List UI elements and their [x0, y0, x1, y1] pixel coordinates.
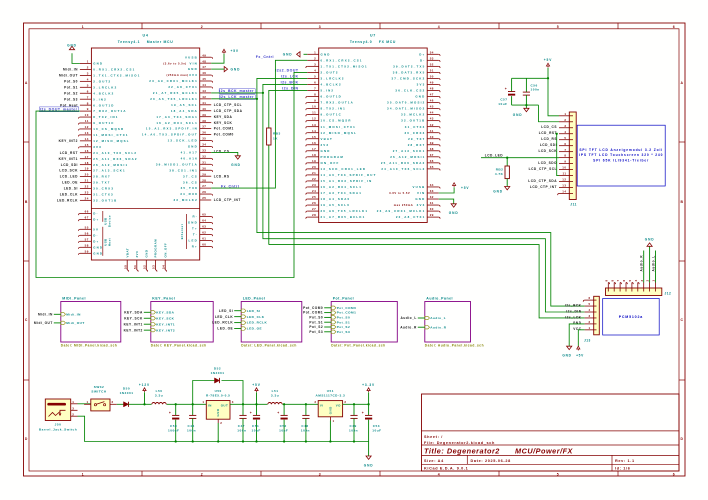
svg-text:3: 3: [319, 472, 321, 476]
svg-text:34: 34: [202, 143, 206, 147]
svg-text:46: 46: [202, 71, 206, 75]
capacitor C51: [256, 404, 258, 415]
svg-text:Midi_IN: Midi_IN: [38, 312, 53, 316]
svg-text:24_A10_TX6_SCL2: 24_A10_TX6_SCL2: [93, 151, 137, 155]
svg-text:(250mA max): (250mA max): [167, 73, 189, 77]
svg-text:4_BCLK2: 4_BCLK2: [321, 83, 342, 87]
svg-text:13: 13: [85, 131, 89, 135]
svg-text:Midi_IN: Midi_IN: [66, 312, 81, 316]
svg-text:C51: C51: [252, 424, 259, 428]
svg-text:GND: GND: [231, 163, 241, 167]
svg-text:2: 2: [646, 279, 650, 281]
sheet MIDI_Panel: [61, 297, 121, 348]
svg-text:Id: 1/6: Id: 1/6: [615, 467, 631, 471]
svg-text:10uF: 10uF: [252, 429, 261, 433]
svg-text:22_A8_CTX1: 22_A8_CTX1: [168, 85, 198, 89]
svg-text:53: 53: [152, 265, 156, 269]
svg-text:3V3: 3V3: [135, 251, 139, 258]
svg-text:C47: C47: [238, 424, 245, 428]
svg-text:GND: GND: [573, 321, 582, 325]
svg-text:KEY_SCK: KEY_SCK: [214, 121, 233, 125]
svg-text:SW32: SW32: [94, 385, 104, 389]
svg-text:13_SCK_LED: 13_SCK_LED: [168, 139, 198, 143]
svg-text:35_DAT0_MOSI2: 35_DAT0_MOSI2: [387, 101, 425, 105]
svg-text:KEY_INT1: KEY_INT1: [59, 157, 78, 161]
svg-text:Pot_COM1: Pot_COM1: [337, 311, 357, 315]
svg-text:LCD_LED: LCD_LED: [60, 175, 78, 179]
svg-text:IN: IN: [208, 403, 212, 407]
svg-text:3.3u: 3.3u: [155, 394, 163, 398]
svg-text:C52: C52: [280, 424, 287, 428]
svg-text:13_SCK_CRX1_LED: 13_SCK_CRX1_LED: [321, 167, 367, 171]
svg-text:LED_CLK: LED_CLK: [247, 315, 265, 319]
svg-text:D+: D+: [93, 239, 99, 243]
svg-text:9: 9: [314, 99, 316, 103]
svg-text:15_A1_RX3_SPDIF_IN: 15_A1_RX3_SPDIF_IN: [321, 179, 373, 183]
svg-text:40: 40: [202, 107, 206, 111]
svg-text:65: 65: [202, 213, 206, 217]
svg-text:KEY_SDA: KEY_SDA: [156, 310, 174, 314]
svg-text:10_CS_MQSR: 10_CS_MQSR: [321, 119, 352, 123]
svg-text:32: 32: [430, 195, 434, 199]
svg-text:3: 3: [589, 314, 591, 318]
svg-text:(3.6v to 5.5v): (3.6v to 5.5v): [163, 61, 186, 65]
svg-text:23: 23: [312, 183, 316, 187]
svg-text:+5V: +5V: [231, 49, 239, 53]
svg-text:48: 48: [430, 87, 434, 91]
svg-text:3: 3: [72, 406, 74, 410]
svg-text:PCM5102a: PCM5102a: [619, 315, 644, 319]
svg-text:39: 39: [202, 113, 206, 117]
wire LCD_LED: [481, 157, 559, 159]
svg-text:1: 1: [314, 50, 316, 54]
wire: [230, 403, 318, 405]
wire: [329, 421, 331, 442]
svg-text:6: 6: [589, 296, 591, 300]
svg-text:Pot_Panel: Pot_Panel: [333, 297, 354, 301]
svg-text:47: 47: [202, 65, 206, 69]
svg-text:17: 17: [85, 155, 89, 159]
svg-text:3V3: 3V3: [417, 203, 426, 207]
svg-text:GND: GND: [328, 406, 332, 414]
svg-text:C53: C53: [373, 424, 380, 428]
svg-text:LCD_CS: LCD_CS: [541, 125, 557, 129]
svg-text:LED_SI: LED_SI: [64, 187, 78, 191]
svg-text:9_OUT1C: 9_OUT1C: [321, 113, 342, 117]
svg-text:3: 3: [319, 25, 321, 29]
MCU U7 Teensy4.0 FX: [306, 34, 440, 223]
power +5V: [578, 330, 584, 346]
svg-text:GND: GND: [188, 67, 198, 71]
sheet Audio_Panel: [425, 297, 484, 348]
svg-text:4: 4: [87, 77, 89, 81]
svg-text:6: 6: [87, 89, 89, 93]
svg-text:GND: GND: [67, 44, 77, 48]
svg-text:30: 30: [202, 166, 206, 170]
svg-text:J50: J50: [55, 423, 62, 427]
svg-text:D: D: [25, 437, 28, 441]
svg-text:6: 6: [622, 279, 626, 281]
svg-text:17: 17: [312, 147, 316, 151]
svg-text:LCD_CTP_SCL: LCD_CTP_SCL: [529, 167, 557, 171]
svg-text:8_TX2_IN1: 8_TX2_IN1: [321, 107, 346, 111]
svg-text:7: 7: [564, 148, 566, 152]
svg-text:51: 51: [133, 265, 137, 269]
svg-text:63: 63: [202, 225, 206, 229]
svg-text:GND: GND: [188, 145, 198, 149]
svg-text:Datei: KEY_Panel.kicad_sch: Datei: KEY_Panel.kicad_sch: [151, 344, 207, 348]
svg-text:28_RX7: 28_RX7: [408, 143, 426, 147]
svg-text:51: 51: [430, 68, 434, 72]
svg-text:54: 54: [430, 50, 434, 54]
svg-text:GND: GND: [562, 354, 571, 358]
svg-text:8: 8: [610, 279, 614, 281]
svg-text:Pot_S1: Pot_S1: [337, 320, 351, 324]
svg-text:3: 3: [314, 400, 316, 404]
svg-text:14_A0_TX3_SPDIF_OUT: 14_A0_TX3_SPDIF_OUT: [142, 133, 198, 137]
svg-text:SPI TFT LCD Anzeigemodul 3.2 Z: SPI TFT LCD Anzeigemodul 3.2 Zoll: [579, 148, 663, 152]
svg-text:VBAT: VBAT: [321, 137, 333, 141]
wire: [117, 403, 124, 405]
svg-text:16_A2_RX4_SCL1: 16_A2_RX4_SCL1: [321, 185, 363, 189]
svg-text:Pot_S3: Pot_S3: [337, 330, 351, 334]
svg-text:R+: R+: [192, 245, 198, 249]
svg-text:+5V: +5V: [576, 354, 584, 358]
svg-text:100uF: 100uF: [168, 429, 179, 433]
svg-text:29: 29: [202, 172, 206, 176]
svg-text:10: 10: [562, 166, 566, 170]
svg-text:LCD_SCK: LCD_SCK: [538, 149, 557, 153]
svg-text:PROGRAM: PROGRAM: [321, 155, 345, 159]
power +12V: [144, 392, 146, 404]
svg-text:36_CLK_CS2: 36_CLK_CS2: [395, 89, 425, 93]
svg-text:GND: GND: [188, 221, 198, 225]
svg-text:Teensy4.0 FX MCU: Teensy4.0 FX MCU: [350, 40, 396, 44]
svg-text:39_DAT2_TX5: 39_DAT2_TX5: [393, 64, 425, 68]
svg-text:A: A: [25, 81, 28, 85]
svg-text:J12: J12: [665, 292, 672, 296]
capacitor C50: [175, 403, 177, 405]
svg-text:LCD_CTP_SDA: LCD_CTP_SDA: [214, 109, 243, 113]
svg-text:1N4001: 1N4001: [120, 391, 134, 395]
svg-text:D-: D-: [93, 233, 98, 237]
svg-text:55: 55: [85, 225, 89, 229]
svg-text:C46: C46: [188, 424, 195, 428]
svg-text:8: 8: [564, 154, 566, 158]
svg-text:VBAT: VBAT: [125, 248, 129, 258]
svg-text:Audio_L: Audio_L: [401, 316, 417, 320]
svg-text:D-: D-: [420, 58, 425, 62]
svg-text:Pot_S2: Pot_S2: [64, 91, 78, 95]
svg-text:7: 7: [87, 95, 89, 99]
svg-text:U7: U7: [370, 34, 376, 38]
svg-text:10: 10: [312, 105, 316, 109]
svg-text:D+: D+: [419, 52, 425, 56]
svg-text:26_A12_MOSI1: 26_A12_MOSI1: [390, 155, 425, 159]
svg-text:LED: LED: [189, 239, 198, 243]
svg-text:1: 1: [87, 400, 89, 404]
svg-text:GND: GND: [216, 409, 220, 417]
svg-text:2: 2: [201, 25, 203, 29]
svg-text:SWITCH: SWITCH: [91, 390, 106, 394]
svg-text:8: 8: [87, 101, 89, 105]
svg-text:File: Degenerator2.kicad_sch: File: Degenerator2.kicad_sch: [424, 441, 495, 445]
wire: [439, 187, 454, 193]
svg-text:Datei: LED_Panel.kicad_sch: Datei: LED_Panel.kicad_sch: [241, 344, 297, 348]
svg-text:KEY_SDA: KEY_SDA: [124, 310, 143, 314]
wire Audio_L: [655, 251, 657, 283]
svg-text:13: 13: [562, 184, 566, 188]
svg-text:GND: GND: [144, 250, 148, 258]
wire: [512, 104, 539, 106]
svg-text:ON_OFF: ON_OFF: [321, 161, 340, 165]
svg-text:Rev: 1.1: Rev: 1.1: [615, 459, 635, 463]
svg-text:33_MCLK2: 33_MCLK2: [174, 198, 198, 202]
svg-text:31: 31: [430, 201, 434, 205]
svg-text:I2s_LCK: I2s_LCK: [565, 315, 581, 319]
svg-text:27_A13_SCK1: 27_A13_SCK1: [93, 169, 126, 173]
svg-text:27: 27: [202, 184, 206, 188]
svg-text:KEY_Panel: KEY_Panel: [152, 297, 175, 301]
svg-text:14_A0_TX3_SPDIF_OUT: 14_A0_TX3_SPDIF_OUT: [321, 173, 377, 177]
svg-text:0_RX1_CRX2_CS1: 0_RX1_CRX2_CS1: [321, 58, 363, 62]
svg-text:LED_CLK: LED_CLK: [60, 193, 78, 197]
svg-text:RB2: RB2: [496, 167, 504, 171]
svg-text:33: 33: [430, 189, 434, 193]
svg-text:67: 67: [85, 216, 89, 220]
svg-text:20: 20: [85, 173, 89, 177]
svg-text:IPS TFT LCD Touchscreen 320 *: IPS TFT LCD Touchscreen 320 * 240: [579, 153, 663, 157]
svg-text:3: 3: [314, 62, 316, 66]
connector J12: [604, 279, 671, 295]
power +5V: [256, 392, 258, 404]
svg-text:19: 19: [85, 167, 89, 171]
svg-text:3V3: 3V3: [417, 83, 426, 87]
svg-text:25: 25: [202, 196, 206, 200]
svg-text:Pot_S2: Pot_S2: [337, 325, 351, 329]
svg-text:18: 18: [312, 153, 316, 157]
svg-text:18: 18: [85, 161, 89, 165]
svg-text:5: 5: [589, 302, 591, 306]
svg-text:Pot_S1: Pot_S1: [309, 320, 323, 324]
svg-text:32_OUT1B: 32_OUT1B: [401, 119, 425, 123]
svg-text:100n: 100n: [531, 88, 540, 92]
svg-text:Pot_COM0: Pot_COM0: [303, 306, 323, 310]
power +5V: [222, 49, 225, 52]
svg-text:Audio_R: Audio_R: [640, 255, 644, 272]
svg-text:6: 6: [314, 81, 316, 85]
svg-text:LCD_CTP_SCL: LCD_CTP_SCL: [214, 103, 242, 107]
svg-text:3V3: 3V3: [93, 145, 102, 149]
svg-text:L51: L51: [272, 389, 279, 393]
svg-text:7_RX2_OUT1A: 7_RX2_OUT1A: [321, 101, 354, 105]
wire: [343, 403, 369, 405]
svg-text:17_A3_TX4_SDA1: 17_A3_TX4_SDA1: [156, 115, 198, 119]
svg-text:30_CRX3: 30_CRX3: [404, 131, 425, 135]
svg-text:LCD_RST: LCD_RST: [539, 131, 557, 135]
svg-text:LCD_CS: LCD_CS: [214, 150, 230, 154]
svg-text:64: 64: [202, 219, 206, 223]
svg-text:15_A1_RX3_SPDIF_IN: 15_A1_RX3_SPDIF_IN: [146, 127, 198, 131]
svg-text:GND: GND: [93, 62, 103, 66]
sheet LED_Panel: [241, 297, 302, 348]
svg-text:Size: A4: Size: A4: [424, 459, 444, 463]
svg-text:9: 9: [87, 107, 89, 111]
svg-text:60: 60: [202, 243, 206, 247]
svg-text:+5V: +5V: [544, 58, 552, 62]
svg-text:30_CRX3: 30_CRX3: [93, 187, 114, 191]
svg-text:53: 53: [430, 56, 434, 60]
svg-text:11_MOSI_CTX1: 11_MOSI_CTX1: [321, 125, 356, 129]
svg-text:10: 10: [85, 113, 89, 117]
resistor RB2: [506, 158, 508, 166]
svg-text:49: 49: [430, 81, 434, 85]
svg-text:Host: Host: [107, 238, 111, 246]
svg-text:Midi_OUT: Midi_OUT: [34, 321, 53, 325]
svg-text:LCD_SDI: LCD_SDI: [540, 143, 557, 147]
ground: [224, 66, 227, 71]
svg-text:38_CS1_IN1: 38_CS1_IN1: [169, 168, 198, 172]
svg-text:11: 11: [312, 111, 316, 115]
svg-text:2: 2: [87, 66, 89, 70]
svg-text:7: 7: [314, 87, 316, 91]
svg-text:LCD_SCK: LCD_SCK: [59, 169, 78, 173]
svg-text:26: 26: [202, 190, 206, 194]
svg-text:2: 2: [564, 118, 566, 122]
svg-text:36_CS: 36_CS: [183, 180, 198, 184]
svg-text:11: 11: [562, 172, 566, 176]
svg-text:B: B: [681, 200, 684, 204]
svg-text:21_A7_RX5_BCLK1: 21_A7_RX5_BCLK1: [321, 215, 366, 219]
svg-text:43: 43: [430, 117, 434, 121]
svg-text:32: 32: [202, 154, 206, 158]
svg-text:Audio_Panel: Audio_Panel: [426, 297, 453, 301]
svg-text:40: 40: [430, 135, 434, 139]
capacitor C52: [283, 403, 285, 405]
svg-text:1: 1: [202, 400, 204, 404]
svg-text:31_CTX3: 31_CTX3: [405, 125, 426, 129]
svg-text:50: 50: [430, 75, 434, 79]
svg-text:45: 45: [202, 77, 206, 81]
svg-text:42: 42: [202, 95, 206, 99]
svg-text:KEY_INT2: KEY_INT2: [59, 139, 78, 143]
svg-text:D: D: [681, 437, 684, 441]
svg-text:26_A12_MOSI1: 26_A12_MOSI1: [93, 163, 128, 167]
svg-text:5: 5: [557, 472, 559, 476]
capacitor C57: [511, 78, 513, 91]
svg-text:Pot_COM0: Pot_COM0: [214, 133, 234, 137]
wire: [78, 403, 91, 405]
svg-text:18_A4_SDA: 18_A4_SDA: [171, 109, 198, 113]
capacitor C46: [192, 403, 194, 405]
svg-text:21_A7_RX5_BCLK1: 21_A7_RX5_BCLK1: [153, 91, 198, 95]
power +3.3V: [368, 392, 370, 404]
svg-text:D50: D50: [123, 386, 130, 390]
svg-text:25_A11_RX6_SDA2: 25_A11_RX6_SDA2: [93, 157, 138, 161]
svg-text:30: 30: [430, 207, 434, 211]
svg-text:22_A8_CTX1: 22_A8_CTX1: [396, 215, 426, 219]
svg-text:Sheet: /: Sheet: /: [424, 435, 443, 439]
svg-text:8: 8: [314, 93, 316, 97]
svg-text:KEY_INT1: KEY_INT1: [156, 322, 175, 326]
ground: [649, 246, 651, 282]
svg-text:4: 4: [438, 25, 440, 29]
svg-text:12_MISO_MQSL: 12_MISO_MQSL: [93, 139, 130, 143]
svg-text:+5V: +5V: [461, 186, 469, 190]
svg-text:2: 2: [344, 400, 346, 404]
svg-text:Audio_R: Audio_R: [430, 325, 446, 329]
svg-text:17_A3_TX4_SDA1: 17_A3_TX4_SDA1: [321, 191, 363, 195]
svg-text:VI: VI: [320, 403, 324, 407]
svg-text:12: 12: [562, 178, 566, 182]
svg-text:2: 2: [112, 400, 114, 404]
svg-text:U4: U4: [143, 34, 149, 38]
svg-text:58: 58: [85, 243, 89, 247]
svg-text:35: 35: [430, 165, 434, 169]
svg-text:5: 5: [87, 83, 89, 87]
svg-text:66: 66: [85, 210, 89, 214]
wire: [556, 133, 558, 135]
svg-text:+: +: [505, 87, 507, 91]
svg-text:Pot_S1: Pot_S1: [64, 85, 78, 89]
svg-text:+: +: [362, 411, 364, 415]
svg-text:37: 37: [202, 125, 206, 129]
svg-text:49: 49: [202, 53, 206, 57]
svg-text:38: 38: [430, 147, 434, 151]
svg-text:4_BCLK2: 4_BCLK2: [93, 91, 114, 95]
svg-text:Datei: Pot_Panel.kicad_sch: Datei: Pot_Panel.kicad_sch: [331, 344, 385, 348]
svg-text:28_RX7: 28_RX7: [93, 175, 111, 179]
svg-text:R-: R-: [192, 215, 197, 219]
svg-text:U50: U50: [215, 389, 222, 393]
svg-text:41: 41: [202, 101, 206, 105]
svg-text:3: 3: [232, 400, 234, 404]
capacitor C53: [368, 404, 370, 415]
svg-text:1_TX1_CTX2_MISO1: 1_TX1_CTX2_MISO1: [321, 64, 368, 68]
svg-text:AMS1117CD-3.3: AMS1117CD-3.3: [316, 394, 346, 398]
svg-text:7_RX2_OUT1A: 7_RX2_OUT1A: [93, 109, 126, 113]
MCU U4 Teensy4.1 Master: [79, 34, 213, 272]
wire bypass: [193, 381, 215, 405]
svg-text:Pot_S0: Pot_S0: [309, 316, 323, 320]
svg-text:9_OUT1C: 9_OUT1C: [93, 121, 114, 125]
svg-text:44: 44: [430, 111, 434, 115]
svg-text:2: 2: [72, 412, 74, 416]
svg-text:11: 11: [85, 119, 89, 123]
svg-text:+3.3V: +3.3V: [362, 383, 375, 387]
svg-text:9: 9: [564, 160, 566, 164]
LCD module note box: [577, 125, 665, 186]
svg-text:1K: 1K: [273, 136, 278, 140]
svg-text:Pot_S3: Pot_S3: [64, 97, 78, 101]
svg-text:24_A10_TX6_SCL2: 24_A10_TX6_SCL2: [381, 167, 425, 171]
svg-text:3: 3: [564, 124, 566, 128]
svg-text:27: 27: [312, 207, 316, 211]
svg-text:3: 3: [640, 279, 644, 281]
svg-text:23_A9_CRX1_MCLK1: 23_A9_CRX1_MCLK1: [377, 209, 426, 213]
svg-text:5_IN2: 5_IN2: [93, 97, 107, 101]
svg-text:LCD_RS: LCD_RS: [541, 137, 557, 141]
svg-text:19_A5_SCL: 19_A5_SCL: [171, 103, 198, 107]
svg-text:3V3: 3V3: [189, 73, 198, 77]
svg-text:43: 43: [202, 89, 206, 93]
svg-text:+: +: [277, 411, 279, 415]
svg-text:KEY_SCK: KEY_SCK: [156, 316, 174, 320]
svg-text:16: 16: [312, 141, 316, 145]
svg-text:36: 36: [202, 131, 206, 135]
capacitor C49: [353, 403, 355, 405]
svg-text:I2s_DIN: I2s_DIN: [566, 309, 581, 313]
